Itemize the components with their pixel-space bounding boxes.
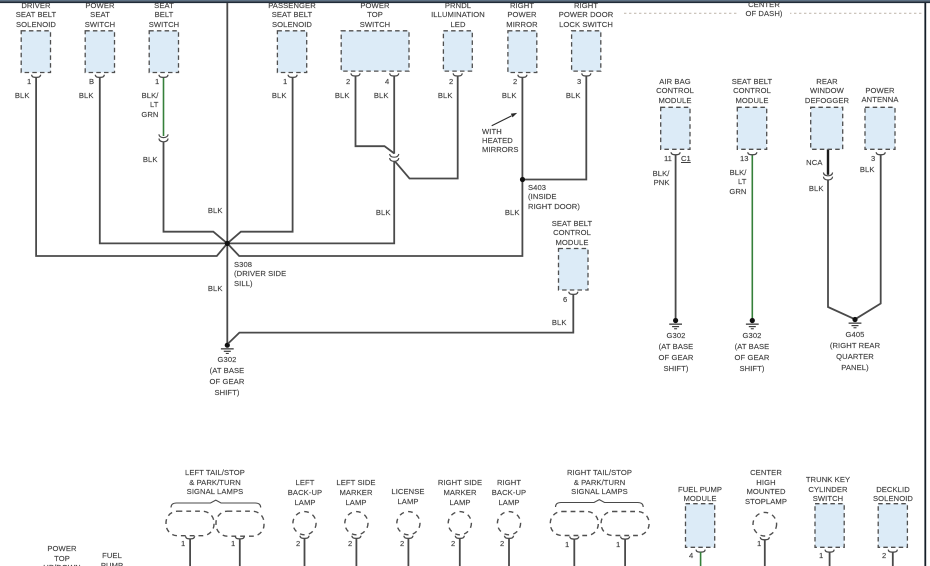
box seat belt switch [149,31,178,73]
arrow WITH HEATED MIRRORS [492,116,512,126]
label decklid solenoid [848,485,930,504]
label G405 [815,329,895,373]
wire label BLK passenger [257,91,287,100]
pin 1 seat belt switch [155,78,159,86]
box right power door lock switch [572,31,601,71]
wire label BLK/PNK airbag [635,169,670,187]
wire label BLK mirror [487,91,517,100]
box trunk key cylinder switch [815,504,844,548]
oval right tail lamp 1 [550,512,598,536]
label fuel pump module [655,485,745,504]
pin 13 seat belt control module [740,155,748,163]
ground G405 [849,317,862,328]
node S403 [520,177,525,182]
wire label BLK power top lower [361,208,391,217]
wire right power door lock switch to S403 [523,76,586,180]
bottom pin cups lamps [186,536,195,539]
wire label BLK defogger [789,184,824,193]
wire power top switch pin 4 [393,76,395,154]
pin 6 seat belt module middle [563,296,567,304]
node S308 [225,241,230,246]
label seat belt switch [119,1,209,29]
oval left tail lamp 1 [166,511,214,536]
wire label BLK PRNDL [423,91,453,100]
box rear window defogger [811,107,843,149]
wire seat belt switch green segment [163,77,165,136]
wire decklid solenoid [892,552,894,566]
right page border [924,3,926,566]
pin 2 decklid solenoid [882,552,886,560]
label power top up/down (cut) [17,544,107,566]
dashed bottom edge of (CENTER OF DASH) box [624,12,924,14]
wire defogger black segment to G405 [828,180,855,319]
ground G302 airbag [669,318,682,329]
wire label NCA defogger [788,158,823,167]
pin 3 power antenna [871,155,875,163]
brace left tail lamps [171,500,261,507]
wire label BLK door lock [551,91,581,100]
circle left back-up lamp [293,512,316,535]
ground G302 left [221,343,234,354]
label rear window defogger [782,77,872,105]
oval right tail lamp 2 [601,512,649,536]
pin 1 stoplamp [757,540,761,548]
label WITH HEATED MIRRORS [482,128,542,154]
box decklid solenoid [878,504,907,548]
circle license lamp [397,512,420,535]
label right tail/stop lamps [552,468,647,497]
label power top switch [330,1,420,29]
label S308 [234,260,304,288]
wire fuel pump module green [700,552,702,566]
wire label BLK power top 4 [359,91,389,100]
pin 1 left tail lamp 2 [231,540,235,548]
circle right back-up lamp [497,512,520,535]
wire label BLK power top 2 [320,91,350,100]
box power top switch [341,31,409,71]
box PRNDL illumination led [443,31,472,71]
box power antenna [865,107,895,149]
wire power top switch pin 2 [356,76,395,154]
wire left back-up lamp [304,538,306,566]
brace right tail lamps [556,500,644,507]
wire right tail lamp 2 [624,539,626,566]
pin 4 power top switch [385,78,389,86]
pin B power seat switch [89,78,94,86]
wire seat belt control module (right) green [751,155,753,319]
pin 1 trunk key switch [819,552,823,560]
wire driver seat belt solenoid to S308 [36,77,227,256]
pin 2 power top switch [346,78,350,86]
wire right side marker lamp [459,538,461,566]
wire label BLK driver [0,91,30,100]
wire label BLK S403 lower [490,208,520,217]
box seat belt control module middle [559,249,589,291]
wire seat belt switch black segment to S308 [164,142,228,244]
label right back-up lamp [464,478,554,507]
pin 4 fuel pump module [689,552,693,560]
wire right tail lamp 1 [573,539,575,566]
inline connector seat belt switch wire [159,134,168,142]
wire left side marker lamp [355,538,357,566]
wire from top edge to S308 [226,3,228,243]
pin 3 door lock switch [577,78,581,86]
label trunk key cylinder switch [783,475,873,504]
label G302 seat belt module [712,330,792,374]
wire rear window defogger NCA segment [827,149,829,175]
pin cups top row [31,75,40,78]
pin 11 air bag module [664,155,672,163]
box driver seat belt solenoid [21,31,50,73]
pin 2 license lamp [400,540,404,548]
wire trunk key cylinder switch [829,552,831,566]
label left side marker lamp [311,478,401,507]
label left tail/stop lamps [170,468,260,497]
wire label BLK top wire [193,206,223,215]
pin 1 right tail lamp 2 [616,541,620,549]
label G302 left [187,354,267,398]
pin 2 right power mirror [513,78,517,86]
wire seat belt control module pin 6 to G302 [228,294,573,343]
wire label BLK/LT GRN seat belt module [712,168,747,196]
wire below connector to S308 [227,161,394,243]
label power antenna [835,86,925,105]
box air bag control module [661,107,690,149]
label S403 [528,183,598,211]
pin 1 passenger solenoid [283,78,287,86]
label right side marker lamp [415,478,505,507]
box right power mirror [508,31,537,73]
label fuel pump (cut) [67,551,157,566]
label right power mirror [477,1,567,29]
wire label BLK seat belt module 6 [537,318,567,327]
oval left tail lamp 2 [216,511,264,536]
wire power antenna to G405 [855,155,881,320]
label G302 airbag [636,330,716,374]
pin 2 PRNDL led [449,78,453,86]
wire right back-up lamp [508,538,510,566]
label power seat switch [55,1,145,29]
wire label BLK power seat [64,91,94,100]
pin 1 left tail lamp 1 [181,540,185,548]
pin 1 driver solenoid [27,78,31,86]
wire passenger seat belt solenoid to S308 [227,77,292,243]
wire label BLK seat belt switch lower [128,155,158,164]
inline connector defogger wire [823,173,832,181]
ground G302 seat belt module [746,318,759,329]
pin cups right modules [671,152,680,155]
wire right power mirror through S403 to S308 [227,77,522,256]
bottom pin cups boxes [696,550,705,553]
wire air bag control module to G302 [675,155,677,319]
wire S308 down to ground [226,243,228,343]
label left back-up lamp [260,478,350,507]
label seat belt control module right [707,77,797,105]
pin 2 left side marker [348,540,352,548]
label center high mounted stoplamp [721,468,811,506]
box power seat switch [85,31,114,73]
circle right side marker lamp [448,512,471,535]
wire label BLK antenna [840,165,875,174]
pin cup seat belt control module middle [569,292,578,295]
pin 2 left back-up lamp [296,540,300,548]
label driver seat belt solenoid [0,1,81,29]
inline connector power top wire [390,154,399,162]
pin 1 right tail lamp 1 [565,541,569,549]
wire license lamp [407,538,409,566]
label seat belt control module middle [527,219,617,247]
circle center high mounted stoplamp [753,512,777,536]
wire left tail lamp 2 [239,539,241,566]
pin 2 right back-up [500,540,504,548]
wire center high mounted stoplamp [764,540,766,566]
top window bar [0,0,930,1]
wire label BLK below S308 [193,284,223,293]
circle left side marker lamp [345,512,368,535]
label license lamp [363,487,453,507]
pin C1 air bag module [681,155,691,163]
box fuel pump module [686,504,715,548]
pin 2 right side marker [451,540,455,548]
wire left tail lamp 1 [189,539,191,566]
box seat belt control module right [737,107,766,149]
label right power door lock switch [541,1,631,29]
wire label BLK/LT GRN seat belt switch [119,91,159,119]
wire power seat switch to S308 [100,77,228,243]
label PRNDL illumination led [413,1,503,29]
label (CENTER OF DASH) [724,0,804,19]
box passenger seat belt solenoid [277,31,306,73]
wire PRNDL illumination led [395,76,458,179]
label air bag control module [630,77,720,105]
label passenger seat belt solenoid [247,1,337,29]
